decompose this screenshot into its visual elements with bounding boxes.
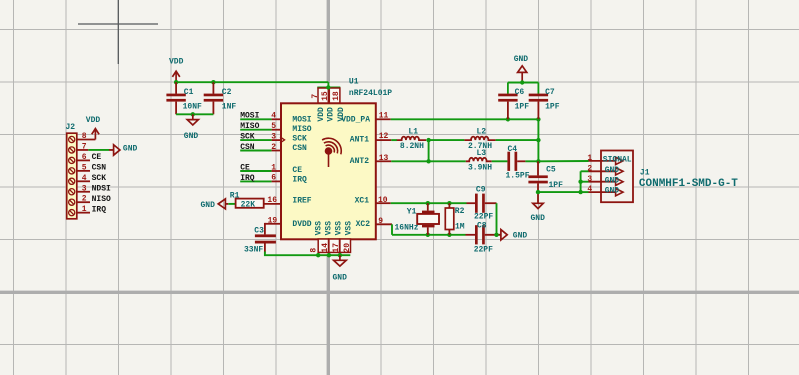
svg-text:IRQ: IRQ (240, 174, 255, 183)
pin box 15 (318, 88, 328, 103)
wire VDD rail drop (327, 82, 329, 87)
svg-text:8: 8 (309, 248, 318, 253)
VDD supply at J2 (94, 130, 96, 140)
clock marker SCK (280, 137, 285, 143)
wire GND stub J2 (109, 149, 114, 151)
svg-text:IRQ: IRQ (292, 176, 307, 185)
J2 pin 8 wire (77, 139, 96, 141)
svg-text:22K: 22K (241, 201, 256, 210)
svg-text:NDSI: NDSI (92, 184, 111, 193)
svg-text:C5: C5 (546, 166, 556, 175)
svg-text:GND: GND (514, 55, 529, 64)
wire L3 to C4 (492, 160, 508, 162)
J1 pin 3 arrow (616, 178, 623, 185)
svg-text:L3: L3 (477, 149, 487, 158)
wire DVDD pin19 (265, 223, 280, 225)
svg-text:DVDD: DVDD (292, 220, 311, 229)
origin crosshair (78, 0, 158, 64)
svg-text:1: 1 (271, 163, 276, 172)
junction Y1 top (426, 201, 430, 205)
J1 pin 1 stub (589, 160, 617, 162)
pin box 14 (318, 239, 328, 252)
pin box 17 (329, 239, 340, 252)
svg-text:11: 11 (379, 112, 389, 121)
svg-text:6: 6 (271, 174, 276, 183)
svg-text:2: 2 (271, 143, 276, 152)
svg-text:VSS: VSS (335, 221, 344, 236)
svg-text:1NF: 1NF (222, 102, 237, 111)
svg-text:16NHz: 16NHz (395, 223, 419, 232)
svg-text:CE: CE (292, 166, 302, 175)
J2 pin 1 stub (77, 212, 90, 214)
capacitor C6 top leg (507, 83, 509, 94)
resistor R2 (445, 208, 454, 230)
svg-text:C4: C4 (508, 145, 518, 154)
wire DVDD drop (264, 223, 266, 235)
wire J1 pin3 (581, 181, 589, 183)
svg-text:22PF: 22PF (474, 245, 493, 254)
svg-text:C1: C1 (184, 88, 194, 97)
junction C6 (506, 117, 510, 121)
antenna symbol U1 (325, 147, 333, 155)
svg-text:6: 6 (82, 153, 87, 162)
svg-text:IRQ: IRQ (92, 205, 107, 214)
svg-text:8: 8 (82, 132, 87, 141)
junction node B (536, 159, 540, 163)
capacitor C3 bottom leg (264, 244, 266, 253)
svg-text:MISO: MISO (240, 122, 259, 131)
pin stubs bottom (318, 252, 340, 255)
svg-text:1PF: 1PF (515, 103, 530, 112)
svg-text:VDD: VDD (317, 107, 326, 122)
svg-text:GND: GND (513, 232, 528, 241)
pin stub MISO (272, 129, 280, 131)
svg-text:12: 12 (379, 132, 389, 141)
VDD supply symbol (175, 72, 177, 81)
svg-text:2: 2 (82, 195, 87, 204)
junction VDD arrow (174, 80, 178, 84)
svg-text:GND: GND (605, 176, 620, 185)
wire ANT2 (391, 160, 466, 162)
wire GND to R1 red (225, 203, 228, 205)
ground stem C1C2 (192, 114, 194, 119)
capacitor C3 (255, 234, 276, 237)
wire CSN net (240, 150, 271, 152)
capacitor C1 top leg (175, 82, 177, 94)
capacitor C5 top leg (537, 161, 539, 175)
capacitor C5 (528, 175, 547, 178)
J2 pads (69, 136, 75, 142)
svg-text:R2: R2 (455, 207, 465, 216)
wire J1 pin2 (581, 170, 589, 172)
J2 pin 4 stub (77, 180, 90, 182)
junction node A2 (426, 159, 430, 163)
svg-text:CSN: CSN (240, 143, 255, 152)
wire XC1 to C9 (467, 202, 476, 204)
svg-text:GND: GND (605, 187, 620, 196)
ground stem C6C7 (521, 72, 523, 82)
J2 pin 7 stub (77, 149, 89, 151)
wire J2 pin7 to GND (88, 149, 109, 151)
pin box 20 (340, 239, 351, 252)
J1 pin 1 arrow (616, 157, 623, 164)
svg-text:5: 5 (271, 122, 276, 131)
wire XC2 (392, 234, 466, 236)
wire GND bus to J1 (538, 191, 581, 193)
svg-text:MOSI: MOSI (240, 112, 259, 121)
svg-text:9: 9 (378, 217, 383, 226)
wire J1 pin4 (581, 191, 589, 193)
connector J2 body (67, 133, 77, 219)
major axis vertical (327, 0, 330, 375)
wire GND to R1 (228, 203, 235, 205)
svg-text:VDD: VDD (86, 116, 101, 125)
wire C9 to gnd (485, 202, 497, 204)
pin stub 11 (376, 118, 391, 120)
inductor L3 (466, 158, 492, 162)
junction R2 top (447, 201, 451, 205)
svg-text:18: 18 (332, 91, 341, 101)
junction pin15 top (326, 85, 330, 89)
svg-text:C7: C7 (545, 88, 555, 97)
pin stub 10 (376, 202, 391, 204)
wire VDD_PA (391, 118, 539, 120)
svg-text:SCK: SCK (92, 174, 107, 183)
svg-text:CSN: CSN (92, 164, 107, 173)
junction Y1 bottom (426, 233, 430, 237)
svg-text:C6: C6 (515, 88, 525, 97)
pin stub 9 (376, 223, 393, 225)
J2 pin 2 stub (77, 201, 90, 203)
svg-text:XC2: XC2 (356, 220, 371, 229)
svg-text:CONMHF1-SMD-G-T: CONMHF1-SMD-G-T (639, 178, 738, 190)
wire pin12 to L1 (391, 139, 397, 141)
svg-text:10: 10 (378, 196, 388, 205)
inductor L2 (464, 137, 495, 141)
svg-text:GND: GND (184, 132, 199, 141)
capacitor C7 (529, 94, 548, 97)
pin stub 12 (376, 139, 392, 141)
svg-text:C3: C3 (254, 226, 264, 235)
pin stub SCK (272, 139, 280, 141)
svg-text:1M: 1M (455, 222, 465, 231)
capacitor C9 (475, 194, 478, 213)
junction gnd stem (520, 80, 524, 84)
capacitor C8 (475, 225, 478, 244)
ground stem U1 (339, 255, 341, 260)
wire XC2 drop (391, 224, 393, 235)
svg-text:GND: GND (123, 144, 138, 153)
GND flag at R1 (218, 199, 225, 209)
svg-text:8.2NH: 8.2NH (400, 142, 424, 151)
wire C4 to node B (525, 160, 538, 162)
svg-text:SIGNAL: SIGNAL (603, 156, 632, 165)
svg-text:VSS: VSS (314, 221, 323, 236)
ground above C6C7 (518, 66, 527, 73)
svg-text:13: 13 (379, 154, 389, 163)
svg-text:16: 16 (267, 196, 277, 205)
wire node A down (428, 140, 430, 161)
svg-text:3: 3 (271, 132, 276, 141)
svg-text:nRF24L01P: nRF24L01P (349, 89, 392, 98)
ground C5 (533, 203, 543, 208)
pin stub MOSI (272, 118, 280, 120)
GND flag at C8 (501, 230, 507, 240)
svg-text:MISO: MISO (292, 125, 311, 134)
svg-text:7: 7 (82, 142, 87, 151)
svg-text:C9: C9 (476, 186, 486, 195)
junction C2 top (211, 80, 215, 84)
pin stub IRQ (272, 180, 280, 182)
wire MOSI net (240, 118, 271, 120)
svg-text:GND: GND (200, 201, 215, 210)
svg-text:J2: J2 (66, 123, 76, 132)
wire SCK net (240, 139, 271, 141)
svg-text:VDD: VDD (169, 57, 184, 66)
svg-text:CE: CE (240, 163, 250, 172)
GND flag at J2 (114, 145, 120, 155)
crystal Y1 top leg (427, 203, 429, 210)
svg-text:L1: L1 (408, 128, 418, 137)
svg-text:GND: GND (333, 273, 348, 282)
J1 pin 4 stub (589, 191, 617, 193)
svg-text:2: 2 (587, 164, 592, 173)
wire C9 gnd drop (496, 203, 498, 235)
junction VSS 20 (338, 253, 342, 257)
svg-text:33NF: 33NF (244, 246, 263, 255)
capacitor C2 top leg (212, 82, 214, 94)
svg-text:VSS: VSS (344, 221, 353, 236)
svg-text:5: 5 (82, 163, 87, 172)
crystal Y1 (422, 211, 435, 214)
wire IRQ net (240, 180, 271, 182)
J1 pin 2 stub (589, 170, 617, 172)
svg-text:C2: C2 (222, 88, 232, 97)
svg-text:CE: CE (92, 153, 102, 162)
resistor R2 top leg (448, 203, 450, 208)
capacitor C6 (498, 94, 517, 97)
junction C7 (536, 117, 540, 121)
pin stub CE (272, 170, 280, 172)
junction L2 node (536, 138, 540, 142)
crystal Y1 bottom leg (427, 227, 429, 234)
svg-text:3: 3 (82, 184, 87, 193)
svg-text:4: 4 (82, 174, 87, 183)
resistor R1 (236, 199, 264, 208)
svg-text:7: 7 (311, 94, 320, 99)
capacitor C1 bottom leg (175, 102, 177, 115)
svg-text:CSN: CSN (292, 144, 307, 153)
svg-text:GND: GND (605, 166, 620, 175)
op IC U1 body (281, 103, 376, 239)
capacitor C1 (166, 94, 185, 97)
svg-text:3.9NH: 3.9NH (468, 163, 492, 172)
svg-text:17: 17 (332, 243, 341, 253)
wire MISO net (240, 129, 271, 131)
ground U1 (334, 260, 347, 266)
wire J1 gnd vertical (580, 171, 582, 192)
wire L2 to C7 node (496, 139, 539, 141)
svg-text:VDD: VDD (337, 107, 346, 122)
svg-text:VSS: VSS (325, 221, 334, 236)
svg-text:15: 15 (321, 91, 330, 101)
wire node B to J1 (538, 160, 588, 162)
capacitor C4 (507, 152, 510, 171)
wire XC1 (391, 202, 467, 204)
resistor R2 bottom leg (448, 230, 450, 235)
J2 pin 3 stub (77, 191, 90, 193)
wire R1 to pin16 (264, 203, 281, 205)
svg-text:IREF: IREF (292, 197, 311, 206)
svg-text:L2: L2 (477, 128, 487, 137)
svg-text:20: 20 (343, 243, 352, 253)
svg-text:SCK: SCK (292, 134, 307, 143)
wire C4 right stub (517, 160, 525, 162)
svg-text:Y1: Y1 (407, 207, 417, 216)
svg-text:MOSI: MOSI (292, 116, 311, 125)
major axis horizontal (0, 291, 799, 294)
J1 pin 2 arrow (616, 168, 623, 175)
wire C8 to gnd (485, 234, 501, 236)
svg-text:R1: R1 (230, 192, 240, 201)
junction C8 gnd (494, 233, 498, 237)
capacitor C2 (204, 94, 223, 97)
J2 pin 5 stub (77, 170, 90, 172)
svg-text:1: 1 (587, 154, 592, 163)
wire C7 node vertical (537, 119, 539, 161)
svg-text:SCK: SCK (240, 133, 255, 142)
junction J1 pin3 (578, 180, 582, 184)
wire C3 to VSS (265, 252, 350, 256)
wire L1 to node (426, 139, 464, 141)
connector J1 body (601, 151, 633, 203)
svg-text:VDD: VDD (326, 107, 335, 122)
svg-text:NISO: NISO (92, 195, 111, 204)
capacitor C6 bottom leg (507, 102, 509, 120)
wire XC2 to C8 (466, 234, 476, 236)
svg-text:C8: C8 (477, 221, 487, 230)
junction node A (426, 138, 430, 142)
pin stub 13 (376, 160, 392, 162)
junction VSS 14 (316, 253, 320, 257)
junction R2 bottom (447, 233, 451, 237)
ground C1C2 (187, 120, 198, 125)
J1 pin 3 stub (589, 181, 617, 183)
junction J1 pin4 (578, 190, 582, 194)
J2 pin 6 stub (77, 159, 90, 161)
svg-text:1PF: 1PF (549, 181, 564, 190)
inductor L1 (397, 137, 426, 141)
pin stub CSN (272, 150, 280, 152)
svg-text:XC1: XC1 (355, 197, 370, 206)
wire VDD pins top (317, 87, 340, 89)
pin box 18 (329, 88, 340, 103)
svg-text:ANT1: ANT1 (350, 136, 369, 145)
wire C6 C7 top (508, 82, 539, 84)
junction ground tap (191, 112, 195, 116)
svg-text:4: 4 (587, 185, 592, 194)
junction VSS 17 (327, 253, 331, 257)
wire C1 C2 ground (176, 113, 213, 115)
svg-text:J1: J1 (640, 169, 650, 178)
svg-text:14: 14 (321, 243, 330, 253)
svg-text:U1: U1 (349, 78, 359, 87)
svg-text:1PF: 1PF (545, 103, 560, 112)
svg-text:ANT2: ANT2 (350, 157, 369, 166)
svg-text:1: 1 (82, 205, 87, 214)
capacitor C7 bottom leg (537, 102, 539, 120)
svg-text:1.5PF: 1.5PF (506, 171, 530, 180)
capacitor C7 top leg (537, 83, 539, 94)
junction C5 gnd tap (536, 190, 540, 194)
capacitor C2 bottom leg (212, 102, 214, 115)
svg-text:3: 3 (587, 175, 592, 184)
wire CE net (240, 170, 271, 172)
svg-text:10NF: 10NF (183, 102, 202, 111)
svg-text:4: 4 (271, 112, 276, 121)
svg-text:GND: GND (531, 214, 546, 223)
svg-text:22PF: 22PF (474, 212, 493, 221)
capacitor C5 bottom leg (537, 183, 539, 203)
wire VDD rail (176, 81, 328, 83)
J1 pin 4 arrow (616, 188, 623, 195)
